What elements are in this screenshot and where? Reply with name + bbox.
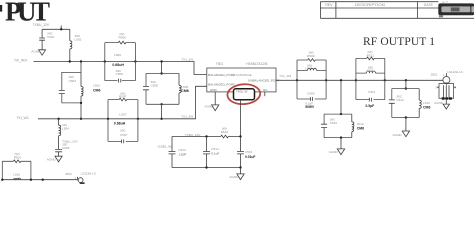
- svg-text:J501: J501: [430, 72, 437, 76]
- svg-text:CM6: CM6: [93, 88, 100, 92]
- ground AGND (C512 tank): [393, 118, 410, 137]
- svg-text:AGND: AGND: [47, 158, 57, 162]
- svg-text:AGND: AGND: [393, 133, 403, 137]
- svg-text:L504: L504: [62, 126, 69, 130]
- junction dots bus2: [57, 118, 139, 120]
- svg-text:REV: REV: [325, 3, 333, 7]
- junction dots bus3: [1, 179, 44, 181]
- svg-text:DATE: DATE: [424, 3, 434, 7]
- inductor L502: [70, 29, 82, 61]
- resistor R509 (in top edge): [307, 51, 315, 62]
- svg-text:RF OUTPUT 1: RF OUTPUT 1: [363, 36, 435, 48]
- wire bus2 TXI_W2- with jog into T501: [38, 86, 207, 119]
- svg-text:R507: R507: [119, 95, 127, 99]
- inductor L503 (on vertical wire x=81): [80, 62, 101, 121]
- svg-text:DESCRIPTION: DESCRIPTION: [355, 3, 385, 7]
- transformer T501: [207, 62, 280, 92]
- ground AGND (C510 tank): [329, 138, 345, 155]
- annotation red ellipse: [227, 83, 261, 105]
- svg-text:NC: NC: [263, 88, 268, 92]
- svg-text:TX1_W2: TX1_W2: [181, 115, 193, 119]
- capacitor C501: [39, 29, 54, 50]
- svg-text:L512: L512: [423, 101, 430, 105]
- svg-text:0.5pF: 0.5pF: [366, 104, 375, 108]
- junction dots busO: [296, 79, 407, 81]
- ground AGND (C501): [31, 49, 45, 55]
- svg-text:R506: R506: [119, 35, 127, 39]
- wire bottom rail top: [172, 136, 241, 138]
- svg-text:0.68uH: 0.68uH: [112, 63, 124, 67]
- svg-text:L507: L507: [119, 112, 126, 116]
- big sheet text fragment "PUT": [0, 0, 50, 27]
- svg-text:C509: C509: [307, 91, 315, 95]
- resistor R511 (in top edge): [367, 50, 375, 60]
- svg-text:L510: L510: [357, 122, 364, 126]
- resistor R510 (in top rail): [221, 126, 229, 137]
- svg-text:AGND: AGND: [205, 105, 215, 109]
- svg-text:CM6: CM6: [181, 89, 188, 93]
- capacitor C506 (in bottom edge): [112, 53, 124, 82]
- capacitor C510 / inductor L510 tank: [321, 80, 364, 139]
- connector J501: [430, 70, 462, 100]
- svg-text:AGND: AGND: [434, 101, 444, 105]
- svg-text:C510: C510: [330, 121, 338, 125]
- junction dots bus1: [69, 60, 163, 62]
- junction dots bottom rail: [205, 166, 241, 168]
- svg-text:TXBU_12V: TXBU_12V: [33, 23, 50, 27]
- resistor R507 (in top edge): [119, 91, 127, 100]
- svg-text:L502: L502: [75, 37, 82, 41]
- svg-text:0.68uH: 0.68uH: [114, 121, 126, 125]
- svg-text:39C: 39C: [120, 129, 126, 133]
- connector J502: [65, 171, 96, 184]
- junction dots top rail: [205, 135, 241, 137]
- wire busO (RF output): [276, 79, 443, 81]
- svg-text:J502: J502: [65, 172, 72, 176]
- svg-text:C516: C516: [245, 150, 253, 154]
- svg-text:LS113H-LS: LS113H-LS: [447, 70, 462, 74]
- svg-text:C513: C513: [178, 148, 186, 152]
- inductor L511 (in middle line): [366, 65, 375, 73]
- svg-text:T501: T501: [216, 62, 224, 66]
- svg-text:TX1_W1: TX1_W1: [181, 58, 193, 62]
- capacitor C505: [55, 139, 78, 156]
- wire from FB01 to bottom network: [240, 100, 242, 137]
- capacitor C509 (in bottom edge): [305, 91, 315, 109]
- wire bus3 (to J502): [2, 179, 77, 181]
- inductor L506 block (box on bus1): [105, 43, 136, 81]
- svg-text:CM6: CM6: [357, 127, 364, 131]
- capacitor C516: [237, 137, 255, 168]
- capacitor C514: [203, 137, 219, 168]
- capacitor C507 (in bottom edge): [114, 112, 128, 143]
- svg-text:AGND: AGND: [31, 49, 41, 53]
- ground AGND (J501): [434, 100, 449, 109]
- svg-text:120P: 120P: [179, 152, 186, 156]
- R509/L509/C509 block: [297, 60, 326, 99]
- svg-text:LS113H-LS: LS113H-LS: [81, 171, 96, 175]
- svg-text:L501: L501: [13, 172, 20, 176]
- capacitor C513: [169, 137, 187, 168]
- svg-text:UNBALANCED_PORT: UNBALANCED_PORT: [248, 79, 280, 83]
- svg-text:GND: GND: [210, 88, 218, 92]
- svg-text:0.01uF: 0.01uF: [245, 155, 255, 159]
- capacitor C511 (in bottom edge): [366, 90, 376, 108]
- wire bottom rail bottom: [172, 167, 241, 169]
- svg-text:L509: L509: [306, 67, 313, 71]
- svg-text:TX1_W3: TX1_W3: [279, 74, 291, 78]
- svg-text:(C5B1_W): (C5B1_W): [158, 144, 172, 148]
- ferrite bead box FB01 (circled): [234, 89, 255, 100]
- inductor L501 block with resistor R501: [2, 152, 31, 180]
- inductor L504: [59, 119, 70, 150]
- svg-text:C501: C501: [47, 35, 55, 39]
- svg-text:BALANCED_PORT: BALANCED_PORT: [208, 73, 235, 77]
- resistor R506 (in top edge): [118, 32, 126, 44]
- svg-text:R511: R511: [367, 54, 374, 58]
- svg-text:BALANCED_PORT: BALANCED_PORT: [208, 83, 235, 87]
- ground AGND (C505): [47, 156, 62, 162]
- svg-text:L511: L511: [367, 69, 374, 73]
- svg-text:C514: C514: [211, 147, 219, 151]
- revision table: [320, 2, 474, 19]
- svg-text:TR01_W: TR01_W: [236, 90, 248, 94]
- svg-text:AGND: AGND: [329, 150, 339, 154]
- R511/L511/C511 block: [356, 58, 385, 99]
- svg-text:L503: L503: [93, 84, 100, 88]
- ground AGND (T501 GND pin): [205, 92, 219, 111]
- wire bus1 TXI_W2+ with jog into T501: [34, 62, 207, 75]
- capacitor C508 / inductor L505 block: [143, 62, 189, 121]
- svg-text:R509: R509: [307, 54, 315, 58]
- svg-text:(4-5) BVDKGE: (4-5) BVDKGE: [233, 73, 252, 77]
- net TXBU_12V (top power tap): [33, 23, 70, 31]
- inductor L509 (in middle line): [306, 63, 317, 70]
- pin NC stub: [264, 92, 266, 96]
- svg-text:4 / 7: 4 / 7: [442, 0, 448, 4]
- svg-text:TXI_W2+: TXI_W2+: [14, 58, 28, 62]
- svg-text:HX5BLTA11/B: HX5BLTA11/B: [246, 62, 268, 66]
- svg-text:L506: L506: [114, 53, 121, 57]
- svg-text:CM6: CM6: [423, 106, 430, 110]
- viewer toolbar overlay: [438, 0, 474, 17]
- svg-text:C507: C507: [120, 133, 128, 137]
- capacitor C503 (box with plates in left edge): [59, 72, 81, 103]
- svg-text:TXI_W2-: TXI_W2-: [17, 116, 30, 120]
- svg-text:C506: C506: [116, 72, 124, 76]
- svg-text:C503: C503: [69, 79, 77, 83]
- svg-text:AGND: AGND: [229, 175, 239, 179]
- svg-text:C508: C508: [151, 84, 159, 88]
- ground AGND (bottom network): [229, 168, 244, 180]
- svg-text:R510: R510: [221, 130, 229, 134]
- svg-text:R501: R501: [14, 156, 22, 160]
- svg-text:50WV: 50WV: [305, 105, 315, 109]
- svg-text:C511: C511: [368, 90, 375, 94]
- svg-text:C505: C505: [62, 146, 70, 150]
- svg-text:0.1uF: 0.1uF: [211, 152, 219, 156]
- capacitor C512 / inductor L512 tank: [389, 80, 431, 118]
- svg-text:C512: C512: [396, 98, 404, 102]
- inductor L507 block (box on bus2): [108, 100, 138, 142]
